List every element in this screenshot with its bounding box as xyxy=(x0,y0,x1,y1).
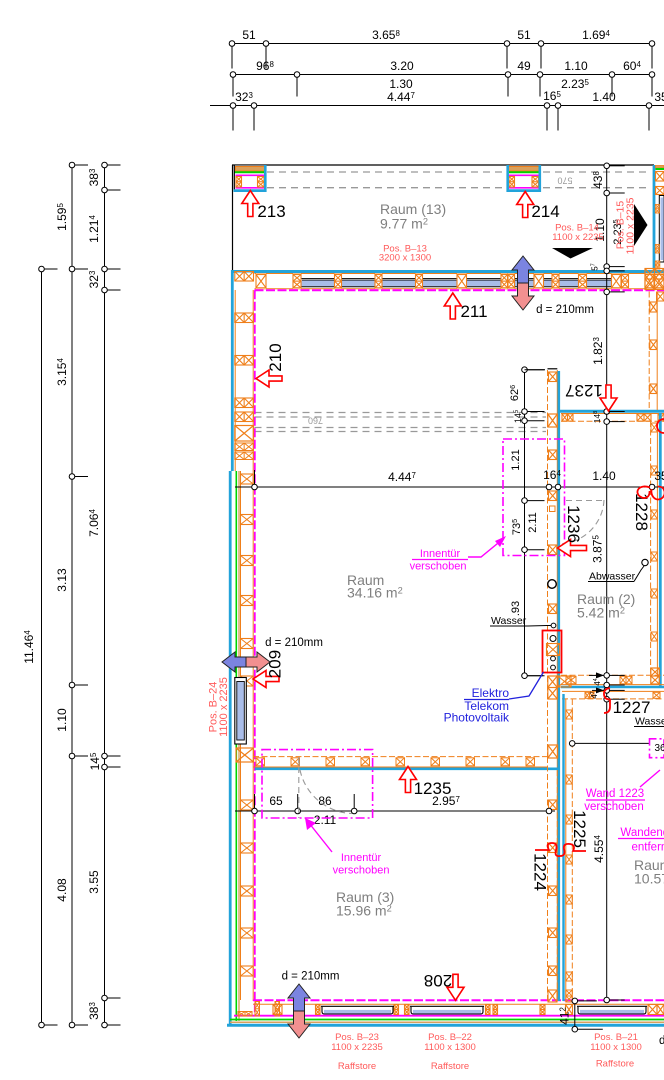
svg-text:entfernt: entfernt xyxy=(632,842,664,854)
svg-text:.93: .93 xyxy=(510,601,522,616)
svg-text:1.21: 1.21 xyxy=(510,449,522,470)
svg-text:Photovoltaik: Photovoltaik xyxy=(444,711,510,725)
svg-text:Innentür: Innentür xyxy=(341,852,382,864)
svg-text:Raffstore: Raffstore xyxy=(338,1061,376,1072)
svg-text:1100 x 2235: 1100 x 2235 xyxy=(218,677,230,737)
svg-text:verschoben: verschoben xyxy=(410,561,467,573)
svg-text:10.57: 10.57 xyxy=(634,871,664,887)
svg-text:3.55: 3.55 xyxy=(87,870,101,894)
svg-text:208: 208 xyxy=(424,971,452,990)
svg-text:1237: 1237 xyxy=(565,381,603,400)
svg-text:51: 51 xyxy=(242,28,256,42)
svg-text:1100 x 2235: 1100 x 2235 xyxy=(331,1042,383,1053)
svg-text:35: 35 xyxy=(654,469,664,483)
svg-text:Wasser: Wasser xyxy=(635,716,664,728)
svg-text:2.11: 2.11 xyxy=(314,813,337,827)
svg-text:d = 210mm: d = 210mm xyxy=(282,971,340,983)
svg-text:Raffstore: Raffstore xyxy=(431,1061,469,1072)
svg-text:3200 x 1300: 3200 x 1300 xyxy=(379,253,431,264)
svg-text:1100 x 1300: 1100 x 1300 xyxy=(590,1042,642,1053)
svg-text:214: 214 xyxy=(531,202,559,221)
svg-text:5.42 m2: 5.42 m2 xyxy=(577,605,625,621)
svg-text:1100 x 1300: 1100 x 1300 xyxy=(424,1042,476,1053)
svg-text:1225: 1225 xyxy=(570,810,589,848)
svg-text:1227: 1227 xyxy=(613,698,651,717)
svg-text:1.40: 1.40 xyxy=(592,469,616,483)
svg-text:verschoben: verschoben xyxy=(333,865,390,877)
svg-text:3.13: 3.13 xyxy=(55,568,69,592)
svg-text:36: 36 xyxy=(654,743,664,754)
svg-text:211: 211 xyxy=(460,302,487,321)
svg-text:1.10: 1.10 xyxy=(55,708,69,732)
svg-text:1100 x 2235: 1100 x 2235 xyxy=(552,232,604,243)
svg-text:35: 35 xyxy=(654,90,664,104)
svg-text:65: 65 xyxy=(269,794,283,808)
svg-text:Wandende: Wandende xyxy=(620,827,664,839)
svg-text:1.30: 1.30 xyxy=(389,77,413,91)
svg-text:Innentür: Innentür xyxy=(420,548,461,560)
svg-text:d: d xyxy=(659,1035,664,1047)
svg-text:1.10: 1.10 xyxy=(564,59,588,73)
svg-text:570: 570 xyxy=(557,176,572,186)
svg-text:9.77 m2: 9.77 m2 xyxy=(380,216,428,232)
svg-text:Elektro: Elektro xyxy=(472,686,510,700)
svg-text:11.464: 11.464 xyxy=(22,630,36,664)
svg-text:51: 51 xyxy=(517,28,531,42)
svg-text:2.11: 2.11 xyxy=(527,512,539,533)
svg-text:Wand 1223: Wand 1223 xyxy=(586,788,644,800)
svg-text:1236: 1236 xyxy=(564,505,583,543)
svg-text:34.16 m2: 34.16 m2 xyxy=(347,585,403,601)
svg-text:209: 209 xyxy=(266,650,285,678)
svg-text:d = 210mm: d = 210mm xyxy=(536,304,594,316)
svg-text:Raffstore: Raffstore xyxy=(596,1059,634,1070)
svg-text:verschoben: verschoben xyxy=(584,801,643,813)
svg-text:1235: 1235 xyxy=(414,779,452,798)
svg-text:1224: 1224 xyxy=(531,853,550,891)
svg-text:15.96 m2: 15.96 m2 xyxy=(336,903,392,919)
svg-text:1100 x 2235: 1100 x 2235 xyxy=(625,197,637,254)
svg-text:3.20: 3.20 xyxy=(390,59,414,73)
svg-text:d = 210mm: d = 210mm xyxy=(265,637,323,649)
svg-text:1228: 1228 xyxy=(632,493,651,531)
svg-text:213: 213 xyxy=(257,202,285,221)
svg-text:4.08: 4.08 xyxy=(55,878,69,902)
svg-text:210: 210 xyxy=(266,343,285,371)
svg-text:760: 760 xyxy=(308,416,323,426)
svg-text:49: 49 xyxy=(517,59,531,73)
svg-text:Abwasser: Abwasser xyxy=(589,571,636,583)
svg-text:1.40: 1.40 xyxy=(592,90,616,104)
svg-text:Wasser: Wasser xyxy=(491,615,527,627)
